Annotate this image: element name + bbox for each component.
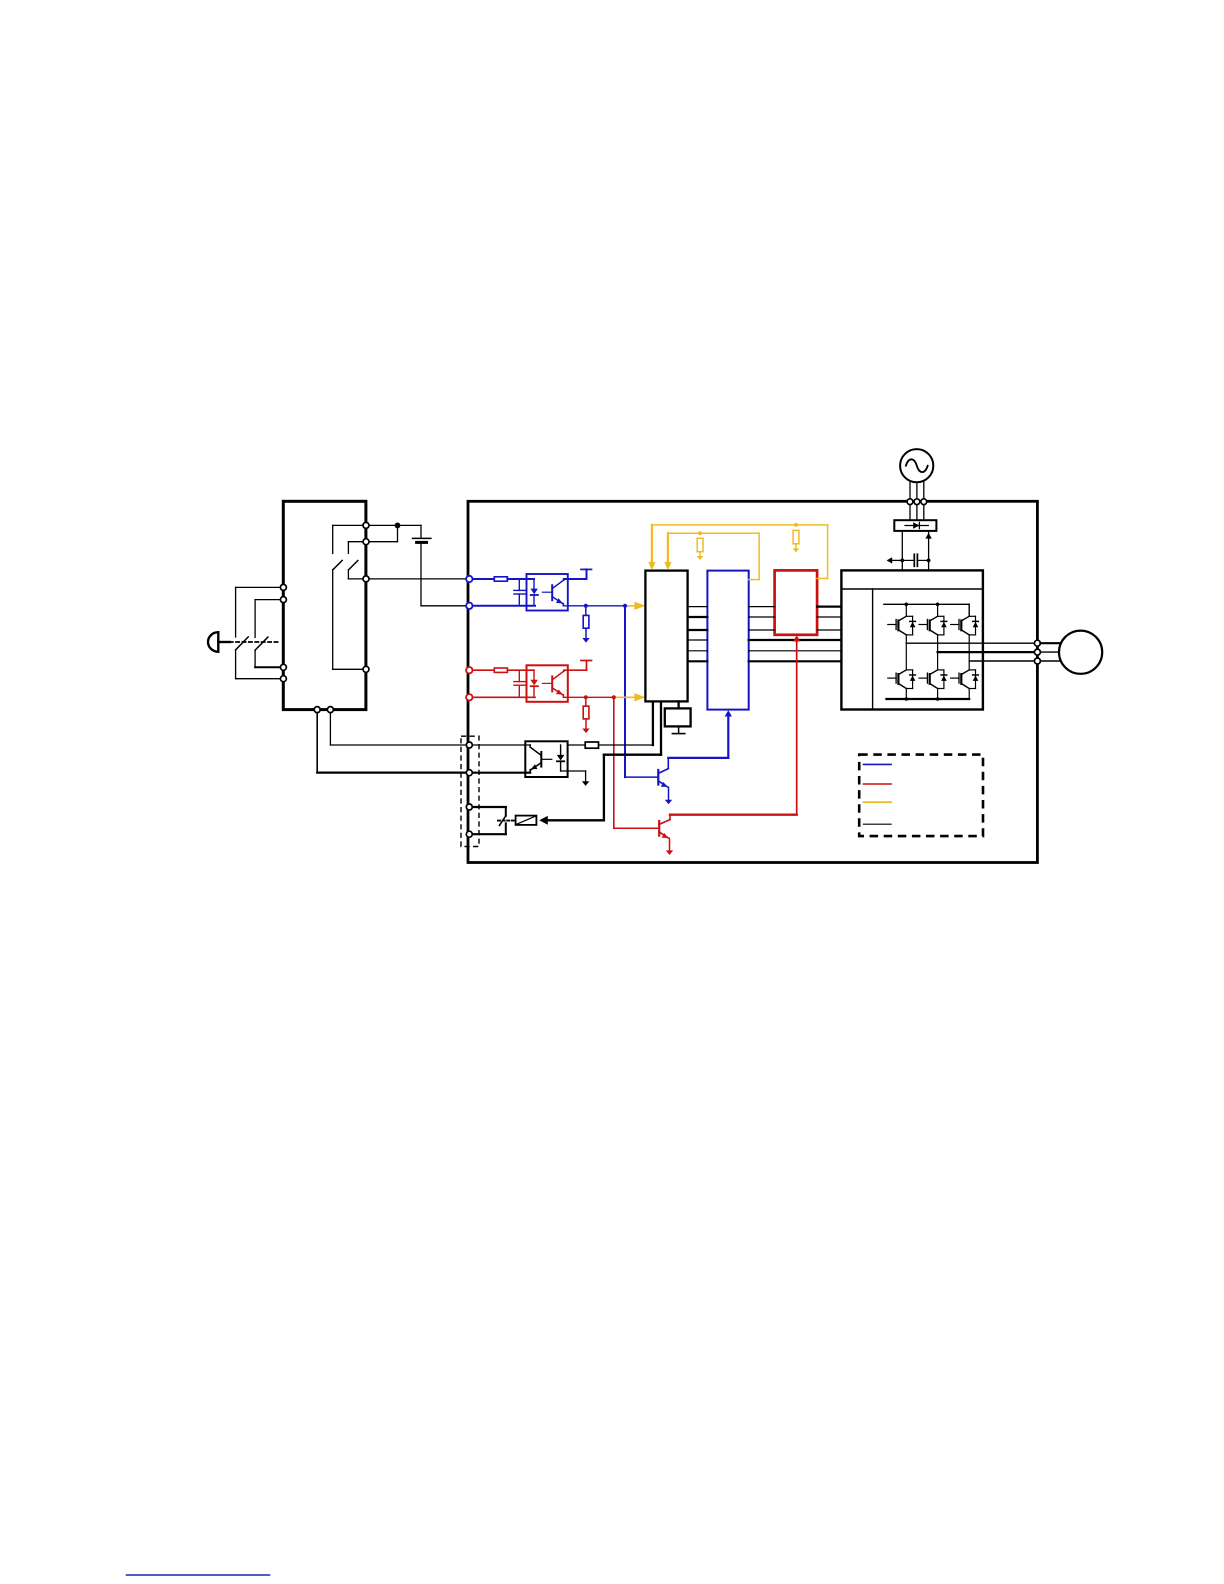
sine wave [906,459,928,472]
motor wire W [1040,660,1059,662]
wire T3 to terminal IN1 [366,578,469,580]
AC wire 2 inside [916,505,918,521]
terminal L3 [280,664,286,670]
terminal K3 [466,804,472,810]
output terminal W [1034,658,1040,664]
terminal B1 [314,707,320,713]
relay contact lower lead [505,823,507,834]
power module box [841,570,983,709]
left arrowhead [887,557,893,563]
red collector lead [659,820,670,825]
bus line 2 seg A [688,616,708,618]
key symbol (half disc) [208,632,218,652]
LED cathode lead [560,761,562,771]
bus line 6 seg A [688,660,708,662]
photo transistor emitter [552,597,562,604]
red collector vertical [669,815,671,820]
terminal K1 [466,742,472,748]
optocoupler U-red box [527,665,568,702]
terminal L2 [280,597,286,603]
blue collector vertical [667,758,669,769]
relay drive wire to coil [548,819,604,821]
phase A collector drop [905,604,907,616]
red emitter vertical [669,838,671,850]
yellow inner resistor stub [699,552,701,556]
negative bus [886,698,969,700]
wire switch B to L3 [255,666,283,668]
crystal lead [677,701,679,708]
yellow arrow into controller 2 [664,562,671,570]
AC source [900,449,933,482]
switch A upper lead [235,587,237,637]
rectifier diode triangle [913,522,919,528]
relay dotted coupling [498,820,514,822]
photo transistor collector [552,671,564,680]
terminal IN4 (red) [466,694,472,700]
terminal T2 [363,539,369,545]
terminal IN2 (blue) [466,603,472,609]
LED cathode lead [533,595,535,606]
yellow outer small arrow [793,548,800,552]
motor phase line U inside [906,642,1037,644]
control panel box [283,501,366,709]
junction dot [927,559,931,563]
legend red sample [864,783,892,785]
wire terminal K1 to opto [469,744,530,746]
yellow arrow tail blue channel [626,605,635,607]
bus line 1 seg C [817,605,841,607]
IGBT Q4 (bottom phase A) [888,677,896,679]
bus line 1 seg B [749,606,775,608]
controller block (black) [645,571,687,702]
relay drive wire [604,754,661,756]
red wire to opto LED [507,669,534,671]
photo transistor emitter [531,763,541,770]
battery short plate [417,541,427,544]
footer link rule [127,1574,270,1576]
terminal B2 [327,707,333,713]
crystal ground bar [672,733,684,735]
LED cathode lead [533,686,535,697]
cap branch lower [518,594,520,606]
junction dot blue branch [623,604,627,608]
yellow outer rail [652,524,828,526]
legend black sample [864,823,892,825]
relay coil box [516,816,537,825]
capacitor plate bottom [514,593,525,595]
blue signal wire to gate array [563,605,625,607]
motor phase line V inside [938,651,1038,653]
pull-up stub [586,569,588,579]
red up arrow into protection block [793,635,800,641]
power module top strip divider [841,588,983,590]
blue emitter lead [658,781,667,787]
bus line 3 seg B [749,629,775,631]
positive bus [884,603,969,605]
bus line 5 to power module [749,650,842,652]
power module inner divider [872,589,874,710]
battery negative lead down [420,542,422,605]
red base bar [658,821,660,836]
red emitter down arrow [666,850,673,855]
output terminal U [1034,640,1040,646]
opto light lead [542,591,551,593]
bus line 4 seg A [688,639,708,641]
bus line 3 seg C [817,629,841,631]
junction dot red branch [612,695,616,699]
relay contact upper lead [505,807,507,816]
red wire up to protection block [796,641,798,815]
AC wire 3 [923,482,925,499]
LED anode lead [560,745,562,755]
terminal T1 [363,522,369,528]
yellow outer right drop [827,525,829,579]
terminal L1 [280,584,286,590]
relay drive lead from controller [660,701,662,754]
phase B mid link [937,635,939,670]
cap left wire [902,559,914,561]
switch S1 blade [333,560,343,570]
yellow input arrow (red channel) [634,693,645,701]
yellow outer resistor stub [795,544,797,549]
photo transistor collector [530,747,541,755]
blue return wire [469,605,535,607]
DC current arrow up [925,533,931,539]
phase C emitter drop [968,689,970,700]
junction dot [900,559,904,563]
LED triangle feedback [557,755,565,761]
junction yellow inner [698,531,702,535]
switch S2 upper lead [347,542,349,554]
red signal wire to gate array [563,696,613,698]
relay contact blade [499,816,505,826]
wire battery to terminal IN2 [421,605,469,607]
junction dot [584,695,588,699]
rectifier diode bar [918,522,920,528]
base lead [541,758,552,760]
AC wire 3 inside [923,505,925,521]
black down arrow [582,781,589,786]
bus line 5 seg A [688,650,708,652]
emitter arrowhead [531,764,538,769]
relay contact top wire [469,806,506,808]
wire to T2 [366,541,398,543]
legend blue sample [864,763,892,765]
LED cathode bar [531,685,538,687]
DC bus left [901,531,903,571]
capacitor plate right [916,554,918,566]
cap branch lower [518,685,520,697]
red wire from terminal IN3 [469,669,494,671]
cap branch upper [518,579,520,590]
blue base wire [625,776,658,778]
red return wire [469,696,535,698]
IGBT Q6 (bottom phase C) [951,677,959,679]
relay drive wire down [603,755,605,821]
main enclosure box (inverter unit) [468,501,1037,862]
LED anode lead [533,670,535,680]
photo transistor emitter [552,688,562,695]
resistor blue pulldown [583,615,589,628]
gate drive block (blue) [707,571,748,710]
phase A emitter drop [905,689,907,700]
pulldown lower lead [585,719,587,729]
thin red continuation [614,696,645,698]
blue wire to opto LED [507,578,534,580]
blue emitter vertical [668,787,670,799]
pull-up T bar [581,660,592,662]
sense wire left [892,559,902,561]
wire T1 to battery top [366,524,421,526]
wire to opto terminal K1 [330,744,469,746]
switch S2 lower lead [347,570,349,579]
resistor feedback [585,742,598,748]
terminal K2 [466,770,472,776]
protection block (red) [775,570,818,634]
cap branch upper [518,670,520,681]
terminal IN3 (red) [466,667,472,673]
IGBT Q3 (top phase C) [951,624,959,626]
junction dot [584,604,588,608]
collector out wire [564,578,587,580]
blue up arrow into drive block [725,710,732,716]
resistor red series [494,668,507,672]
AC terminal 3 [921,499,927,505]
LED anode lead [533,579,535,589]
capacitor plate top [514,681,525,683]
bus line 2 seg C [817,616,841,618]
AC terminal 1 [907,499,913,505]
blue wire from terminal IN1 [469,578,494,580]
capacitor plate top [514,589,525,591]
thick wire terminal K2 to opto [469,772,530,774]
blue base bar [657,770,659,785]
photo transistor base bar [551,585,553,600]
crystal box [665,708,691,726]
relay drive arrowhead [539,816,548,825]
resistor yellow inner [697,538,703,551]
key stub [218,641,229,643]
terminal T3 [363,576,369,582]
legend yellow sample [864,801,892,803]
wire switch A to L4 [236,678,284,680]
crystal ground lead [678,726,680,733]
photo transistor collector [552,580,564,589]
DC bus right [928,531,930,571]
photo transistor base bar (mirrored) [540,752,542,767]
cap right wire [917,559,928,561]
terminal T4 [363,666,369,672]
blue emitter arrowhead [661,782,668,787]
blue collector lead [658,769,668,774]
yellow input arrow (blue channel) [634,602,645,610]
AC terminal 2 [914,499,920,505]
blue emitter down arrow [665,800,672,805]
red collector wire to protection block [670,814,797,816]
LED triangle blue [530,589,538,595]
AC wire 2 [916,482,918,499]
legend dashed box [859,755,983,837]
optocoupler U-blue box [527,574,568,611]
bus line 6 to power module [749,660,842,662]
rectifier box [894,520,936,531]
resistor red pulldown [583,706,589,719]
switch B lower lead [254,650,256,667]
switch S2 blade [348,561,357,571]
red down arrow [582,729,589,734]
wire switch S1 to T4 [333,668,366,670]
yellow into protection block [817,578,828,580]
dashed terminal group box [461,736,479,846]
terminal L4 [280,676,286,682]
phase C collector drop [968,604,970,616]
IGBT Q2 (top phase B) [919,624,927,626]
junction dot [395,523,401,529]
wire switch S2 to T3 [348,578,366,580]
switch S1 upper lead [332,525,334,553]
bus line 3 seg A [688,629,708,631]
blue down arrow [582,638,589,643]
switch A lower lead [235,650,237,679]
IGBT Q5 (bottom phase B) [919,677,927,679]
pulldown lower lead [585,628,587,638]
AC wire 1 [909,482,911,499]
LED cathode bar [531,594,538,596]
LED cathode bar [557,760,564,762]
wire L2 to switch B [255,599,283,601]
yellow inner right drop [758,533,760,579]
yellow inner small arrow [697,556,704,560]
emitter arrowhead [556,598,563,603]
key dashed coupling line [230,641,279,643]
collector out wire [564,669,587,671]
yellow arrow tail red channel [615,696,636,698]
phase A mid link [905,635,907,670]
terminal K4 [466,831,472,837]
relay coil diagonal [517,816,536,824]
yellow into drive block [749,579,759,581]
optocoupler U-feedback box [525,741,567,777]
return down lead [585,771,587,781]
pulldown lead [585,697,587,706]
phase B collector drop [937,604,939,616]
battery positive lead [420,525,422,538]
pulldown lead [585,606,587,616]
wire T2 to switch S2 [348,541,366,543]
phase B emitter drop [937,689,939,700]
yellow drop to controller 1 [651,525,653,563]
yellow drop to controller 2 [667,533,669,562]
capacitor plate left [913,554,915,566]
blue collector wire to drive block [668,757,728,759]
red wire down to transistor [613,697,615,828]
terminal IN1 (blue) [466,576,472,582]
yellow inner rail [668,532,759,534]
bus line 1 seg A [688,606,708,608]
photo transistor base bar [551,676,553,691]
blue wire down to transistor [624,606,626,777]
resistor blue series [494,577,507,581]
wire L1 to switch A [236,586,284,588]
switch B upper lead [254,600,256,638]
motor wire U [1040,642,1059,644]
emitter arrowhead [556,689,563,694]
motor wire V [1040,651,1059,653]
bus line 4 to power module [749,639,842,641]
switch A blade [236,637,249,650]
wire junction down to T2 row [397,525,399,541]
battery long plate [413,537,431,539]
motor phase line W inside [969,660,1037,662]
controller feedback lead [652,701,654,745]
red base wire [614,827,659,829]
thick wire to opto terminal K2 [317,771,469,773]
phase C mid link [968,635,970,670]
resistor yellow outer [793,530,799,543]
wire T1 to switch S1 [333,524,366,526]
relay contact bottom wire [469,833,506,835]
LED return wire [561,770,586,772]
LED triangle red [530,680,538,686]
red emitter arrowhead [662,833,669,838]
wire resistor to controller [599,744,653,746]
wire bottom terminal B2 down [329,710,331,745]
yellow arrow into controller 1 [648,562,655,570]
bus line 2 seg B [749,616,775,618]
pull-up T bar [581,568,592,570]
output terminal V [1034,649,1040,655]
red emitter lead [659,832,668,838]
pull-up stub [586,661,588,671]
motor [1059,631,1102,674]
IGBT Q1 (top phase A) [888,624,896,626]
wire bottom terminal B1 down [316,710,318,773]
rectifier diode line [905,525,928,527]
switch B blade [255,637,268,650]
wire opto to resistor [568,744,586,746]
opto light lead [542,682,551,684]
AC wire 1 inside [909,505,911,521]
junction yellow outer [794,523,798,527]
capacitor plate bottom [514,684,525,686]
blue wire up to drive block [727,716,729,758]
switch S1 lower lead [332,570,334,669]
